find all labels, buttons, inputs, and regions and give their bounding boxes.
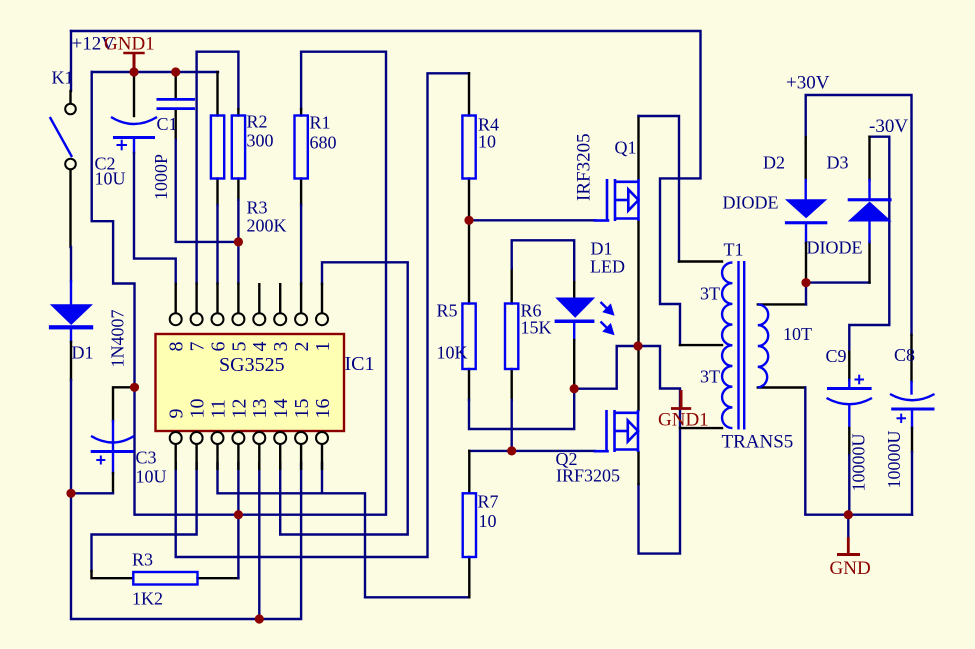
- wire +30V rail: [806, 95, 912, 335]
- wire LED cathode: [573, 324, 575, 341]
- node LED cathode junction: [570, 384, 579, 393]
- wire C9 bottom to GND node: [848, 407, 850, 429]
- wire D2 cathode to D3 anode row: [806, 281, 870, 283]
- wire K1 top lead: [70, 31, 72, 91]
- svg-text:3: 3: [270, 342, 292, 352]
- wire +12V horizontal: [92, 71, 218, 73]
- svg-text:D1: D1: [591, 239, 613, 259]
- wire R6 top and LED anode: [511, 268, 513, 304]
- capacitor C3: [91, 436, 134, 465]
- svg-text:10K: 10K: [437, 343, 468, 363]
- IC pin stubs pins 4 and 3 unconnected: [259, 283, 280, 313]
- wire R2 top stub: [216, 72, 218, 116]
- svg-text:2: 2: [291, 342, 313, 352]
- svg-text:15: 15: [291, 399, 313, 419]
- node staircase C3 junction: [130, 383, 139, 392]
- svg-text:SG3525: SG3525: [219, 354, 285, 376]
- wire C1 top lead: [174, 72, 176, 98]
- wire Q1 drain to primary top: [637, 116, 639, 179]
- wire center tap lead: [680, 344, 722, 346]
- diode D2: [785, 199, 827, 224]
- wire R2 bottom to pin 6: [216, 179, 218, 206]
- wire -30V rail: [870, 135, 890, 137]
- svg-text:R3: R3: [247, 198, 268, 218]
- node D2 D3 secondary junction: [801, 278, 810, 287]
- wire K1 bottom to D1 anode: [69, 170, 71, 248]
- node GND rail junction: [844, 510, 853, 519]
- capacitor C8: [890, 394, 935, 423]
- svg-text:C1: C1: [157, 114, 178, 134]
- node pin12 rail junction: [234, 510, 243, 519]
- capacitor C9: [827, 375, 873, 405]
- capacitor C1: [157, 99, 196, 108]
- wire R4 top stub: [468, 73, 470, 115]
- wire Q1 source / Q2 drain column: [637, 221, 639, 410]
- wire Q2 gate: [469, 450, 595, 452]
- diode D1 1N4007: [49, 304, 93, 329]
- svg-text:12: 12: [228, 399, 250, 419]
- svg-text:R1: R1: [310, 113, 331, 133]
- wire LED node to MOSFET junction node: [574, 346, 638, 389]
- svg-text:IRF3205: IRF3205: [574, 133, 595, 201]
- resistor R1: [295, 116, 308, 179]
- svg-text:10000U: 10000U: [884, 431, 904, 489]
- node R3 bottom C1 junction: [234, 237, 243, 246]
- svg-text:16: 16: [312, 399, 334, 419]
- wire node4 jog to C3 plus lead: [113, 387, 135, 421]
- resistor R2: [211, 116, 224, 179]
- wire pin 7 stub: [195, 284, 197, 314]
- wire C8 bottom: [911, 409, 913, 428]
- node Q1 source Q2 drain junction: [633, 341, 642, 350]
- svg-text:R5: R5: [437, 301, 458, 321]
- svg-text:10000U: 10000U: [849, 434, 869, 492]
- svg-text:1N4007: 1N4007: [108, 310, 128, 368]
- wire node8 to R5 top: [468, 220, 470, 303]
- wire R1 top stub: [300, 109, 302, 116]
- svg-text:R2: R2: [247, 112, 268, 132]
- wire R1 bottom to pin 2: [300, 179, 302, 206]
- wire C2 bottom to pin 8: [133, 139, 135, 153]
- svg-text:LED: LED: [590, 257, 625, 277]
- resistor R6: [505, 304, 518, 370]
- svg-text:15K: 15K: [521, 318, 552, 338]
- node pin13 ground rail junction: [255, 614, 264, 623]
- svg-text:DIODE: DIODE: [723, 193, 779, 213]
- wire secondary top: [758, 303, 806, 305]
- wire primary bottom lead: [680, 427, 722, 429]
- svg-text:TRANS5: TRANS5: [722, 432, 794, 453]
- wire +30V down to C8 top: [910, 335, 912, 382]
- wire pin 11 and pin 16 to R7 bottom: [218, 463, 470, 597]
- transistor Q1: [607, 179, 639, 221]
- svg-text:200K: 200K: [247, 216, 287, 236]
- wire D2 cathode lead: [805, 224, 807, 243]
- ground GND symbol right: [837, 537, 860, 555]
- wire R3 1K2 right to node6: [198, 577, 239, 579]
- diode D3: [848, 198, 892, 221]
- svg-text:13: 13: [249, 399, 271, 419]
- ground GND1 symbol middle: [671, 390, 691, 409]
- wire -30V down to C9 top: [849, 137, 889, 352]
- ground GND1 power symbol top: [123, 53, 144, 71]
- wire secondary bottom to GND rail: [758, 386, 806, 388]
- resistor R7: [463, 493, 476, 557]
- svg-text:300: 300: [247, 130, 274, 150]
- svg-text:K1: K1: [52, 68, 74, 88]
- wire pin 1 stub: [321, 284, 323, 313]
- IC pin circles top: [170, 313, 328, 325]
- transformer T1 primary winding: [722, 263, 732, 429]
- wire +12V top rail and right drop to transformer center tap: [71, 31, 701, 345]
- svg-text:11: 11: [207, 399, 229, 418]
- svg-text:DIODE: DIODE: [807, 238, 863, 258]
- node R4 R5 gate junction: [464, 216, 473, 225]
- svg-text:6: 6: [207, 342, 229, 352]
- capacitor C2: [111, 117, 157, 150]
- svg-text:C8: C8: [894, 345, 915, 365]
- svg-text:10: 10: [479, 511, 497, 531]
- svg-text:-30V: -30V: [869, 116, 908, 137]
- resistor R3 1K2 horizontal: [133, 572, 197, 585]
- svg-text:10: 10: [187, 399, 209, 419]
- resistor R5: [462, 304, 475, 370]
- svg-text:1: 1: [312, 342, 334, 352]
- svg-text:9: 9: [166, 409, 188, 419]
- transformer T1 core: [739, 261, 745, 430]
- wire R4 bottom to node8: [468, 179, 470, 221]
- wire Q2 gate corner to R7 top: [468, 451, 470, 493]
- transistor Q2: [607, 410, 639, 452]
- wire C1 bottom to node3: [174, 110, 176, 140]
- svg-text:10: 10: [478, 132, 496, 152]
- svg-text:R7: R7: [478, 492, 499, 512]
- svg-text:680: 680: [310, 133, 337, 153]
- switch K1: [50, 104, 76, 170]
- svg-text:IC1: IC1: [345, 353, 375, 375]
- svg-text:10U: 10U: [95, 169, 126, 189]
- svg-text:10U: 10U: [136, 467, 167, 487]
- wire GND stem upper: [847, 515, 849, 537]
- svg-text:GND: GND: [830, 558, 871, 579]
- wire pin 1 to pin 14: [280, 262, 408, 534]
- svg-text:8: 8: [166, 342, 188, 352]
- svg-text:7: 7: [187, 342, 209, 352]
- wire R5 bottom to LED node: [468, 369, 470, 400]
- wire +12V staircase to y514 rail, col386 up to R1 top: [92, 52, 386, 515]
- wire Q1 gate: [469, 219, 595, 221]
- svg-text:1K2: 1K2: [132, 589, 163, 609]
- wire C3 bottom to D1 node: [112, 453, 114, 474]
- svg-text:D3: D3: [827, 153, 849, 173]
- LED D1: [555, 298, 613, 334]
- svg-text:D1: D1: [72, 343, 94, 363]
- wire node11 to GND1 and primary bottom, loop to Q2 source: [638, 346, 680, 554]
- wire pin 16: [321, 463, 323, 493]
- node D1 C3 junction: [66, 489, 75, 498]
- pin numbers bottom row: [166, 399, 334, 419]
- node C1 top junction: [171, 67, 180, 76]
- node R6 Q2 gate junction: [507, 446, 516, 455]
- transformer T1 secondary winding: [758, 304, 768, 387]
- svg-text:14: 14: [270, 399, 292, 419]
- svg-text:GND1: GND1: [658, 410, 709, 431]
- svg-text:3T: 3T: [700, 284, 720, 304]
- pin numbers top row: [166, 342, 334, 352]
- wire D1 cathode down to C3 node: [70, 329, 72, 342]
- wire pin7 and R3 top horizontal: [197, 52, 239, 284]
- wire pin 13: [258, 463, 260, 619]
- svg-text:C9: C9: [826, 346, 847, 366]
- resistor R3: [232, 116, 245, 179]
- IC pin circles bottom: [170, 432, 328, 444]
- svg-text:T1: T1: [724, 240, 744, 260]
- svg-text:D2: D2: [763, 153, 785, 173]
- svg-text:Q1: Q1: [615, 138, 637, 158]
- wire R3 top lead: [237, 52, 239, 109]
- wire R6 bottom to node9: [511, 369, 513, 400]
- svg-text:+30V: +30V: [786, 73, 830, 94]
- svg-text:1000P: 1000P: [151, 154, 171, 200]
- svg-text:IRF3205: IRF3205: [556, 466, 620, 486]
- svg-text:5: 5: [228, 342, 250, 352]
- wire R3 bottom through node3 to pin 5: [237, 179, 239, 201]
- svg-text:10T: 10T: [783, 324, 812, 344]
- IC pin stubs bottom: [176, 444, 322, 470]
- wire pin 9 to R4 top: [176, 73, 469, 557]
- svg-text:4: 4: [249, 342, 271, 352]
- svg-text:C3: C3: [136, 448, 157, 468]
- wire pin 12: [237, 463, 239, 515]
- wire C2 top lead: [133, 72, 135, 116]
- wire left ground rail bottom to pin 15: [71, 463, 301, 619]
- wire pin 10 to R3 1K2 left: [92, 463, 197, 571]
- IC U1 SG3525 body: [156, 334, 345, 431]
- svg-text:R3: R3: [132, 550, 153, 570]
- node +12V junction: [129, 67, 138, 76]
- svg-text:3T: 3T: [700, 367, 720, 387]
- resistor R4: [462, 116, 475, 179]
- svg-text:GND1: GND1: [104, 34, 155, 55]
- wire pin 8 stub: [174, 284, 176, 313]
